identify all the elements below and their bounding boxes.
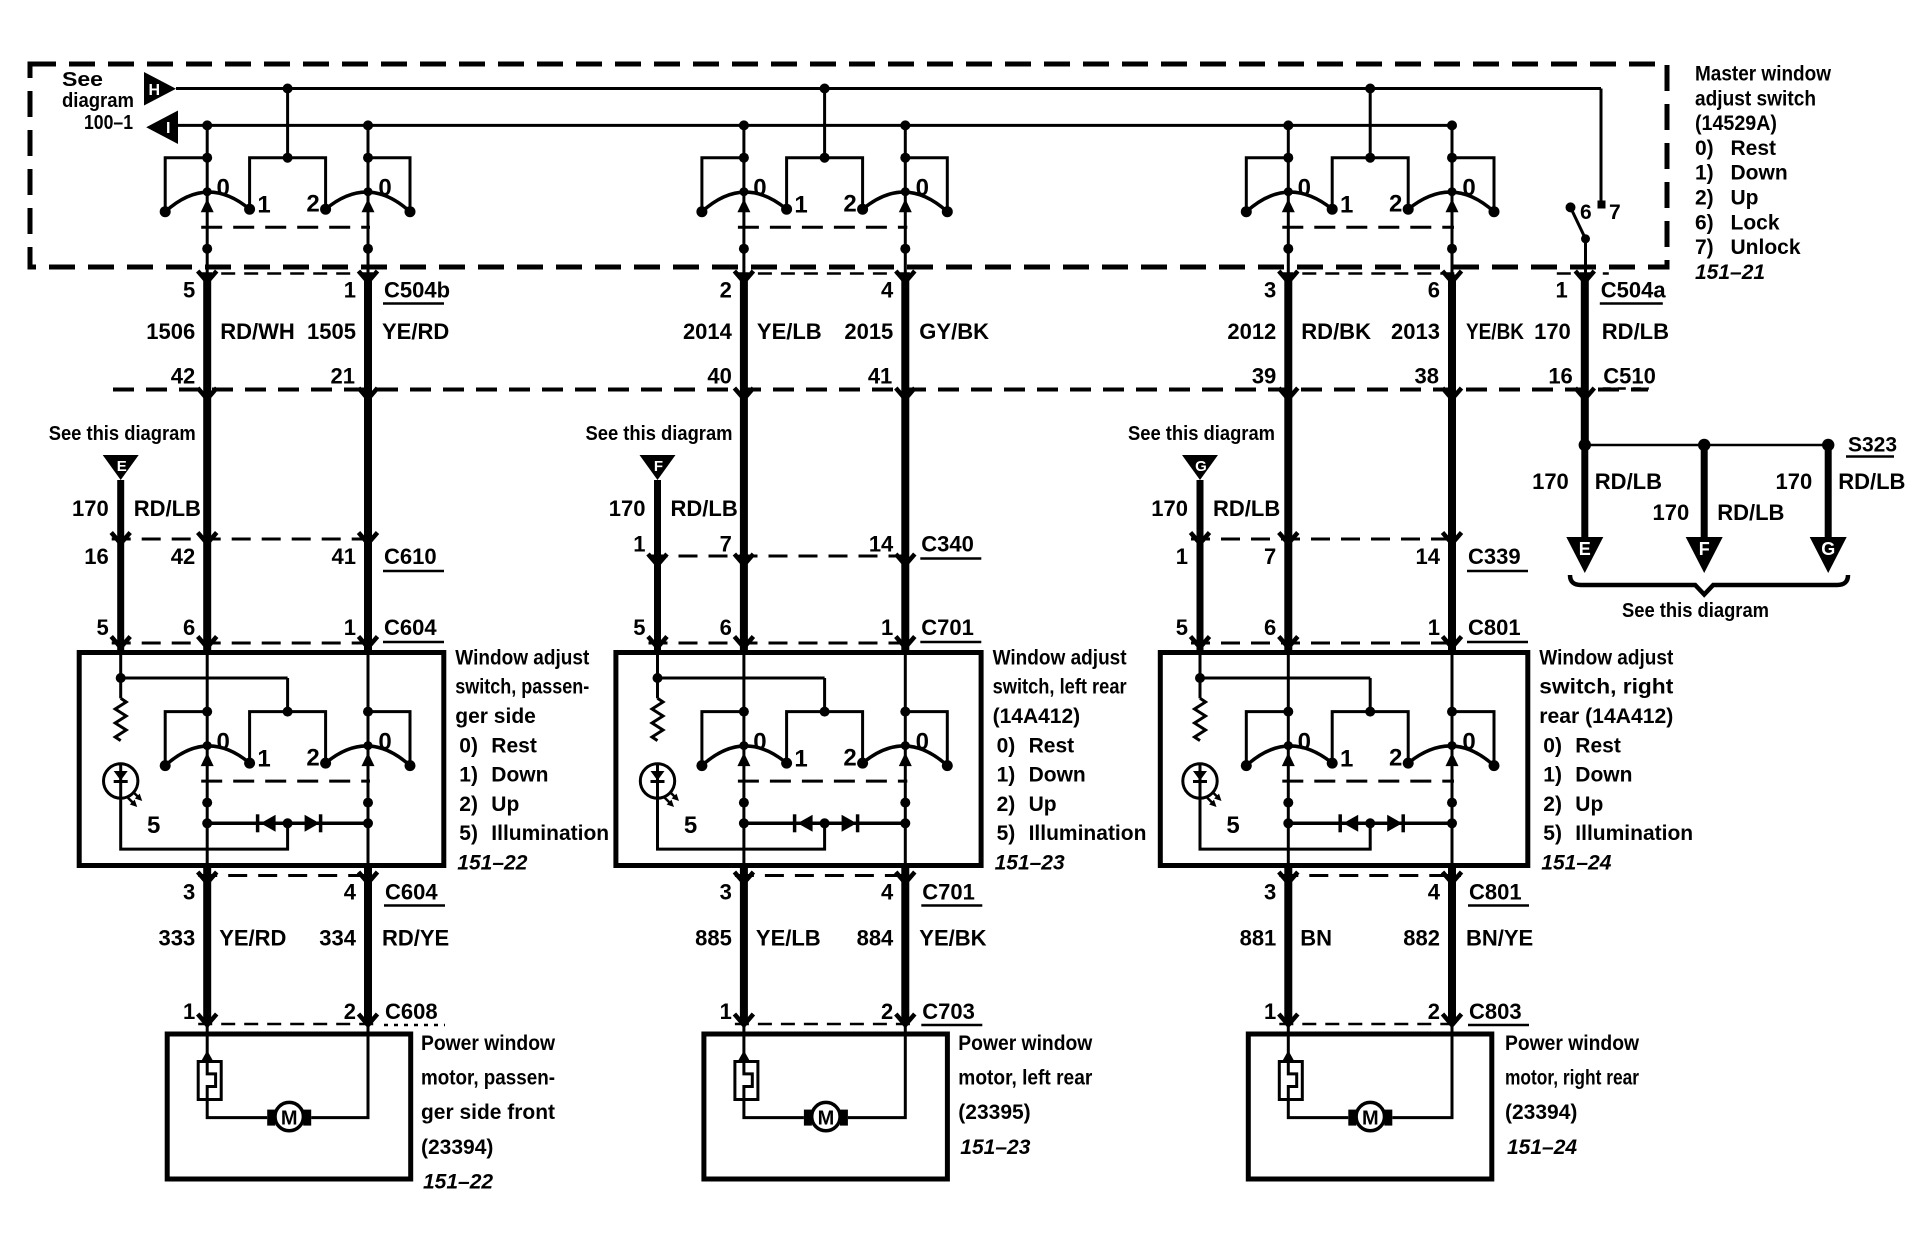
svg-text:6: 6 [1428,278,1440,303]
svg-text:Lock: Lock [1731,211,1780,234]
svg-text:5: 5 [96,615,108,640]
svg-text:Illumination: Illumination [491,822,609,845]
svg-text:16: 16 [84,544,108,569]
svg-text:2): 2) [1695,187,1714,210]
svg-text:E: E [1579,539,1591,559]
svg-text:0: 0 [916,729,929,756]
svg-text:Rest: Rest [1029,734,1075,757]
svg-text:adjust switch: adjust switch [1695,87,1816,110]
svg-text:M: M [281,1108,298,1130]
svg-text:C803: C803 [1469,999,1522,1024]
svg-text:Master window: Master window [1695,63,1832,86]
svg-text:Rest: Rest [1575,734,1621,757]
svg-text:Down: Down [1029,764,1086,787]
svg-text:RD/LB: RD/LB [671,496,738,521]
svg-text:2: 2 [843,745,856,772]
svg-text:151–23: 151–23 [960,1136,1030,1159]
svg-text:Rest: Rest [491,734,537,757]
svg-text:170: 170 [72,496,109,521]
svg-text:0: 0 [753,175,766,202]
svg-text:2: 2 [1389,191,1402,218]
svg-text:ger side front: ger side front [421,1101,555,1124]
svg-text:2): 2) [459,793,478,816]
svg-text:RD/WH: RD/WH [220,319,295,344]
svg-text:RD/LB: RD/LB [1595,469,1662,494]
svg-text:F: F [654,458,663,475]
svg-text:884: 884 [857,926,894,951]
svg-text:38: 38 [1415,364,1439,389]
svg-text:E: E [117,458,127,475]
svg-text:F: F [1699,539,1710,559]
svg-text:1: 1 [1340,192,1353,219]
svg-text:motor, right rear: motor, right rear [1505,1067,1639,1090]
svg-text:885: 885 [695,926,732,951]
svg-text:Up: Up [1029,793,1057,816]
svg-text:0: 0 [1298,175,1311,202]
svg-text:2: 2 [344,999,356,1024]
svg-text:Power window: Power window [958,1032,1093,1055]
svg-text:5: 5 [684,812,697,839]
svg-text:1: 1 [1556,278,1568,303]
svg-text:0: 0 [1462,729,1475,756]
svg-text:1): 1) [997,764,1016,787]
svg-text:7: 7 [720,532,732,557]
svg-text:334: 334 [319,926,356,951]
svg-text:333: 333 [158,926,195,951]
svg-text:4: 4 [881,278,894,303]
svg-text:YE/LB: YE/LB [757,319,822,344]
svg-text:See this diagram: See this diagram [1128,423,1275,445]
svg-text:Down: Down [1575,764,1632,787]
svg-text:6): 6) [1695,211,1714,234]
svg-text:(23395): (23395) [958,1101,1030,1124]
svg-text:151–22: 151–22 [423,1170,493,1193]
svg-text:Rest: Rest [1731,137,1777,160]
svg-text:C801: C801 [1469,880,1522,905]
svg-text:151–21: 151–21 [1695,261,1765,284]
svg-text:1: 1 [1176,544,1188,569]
svg-text:Up: Up [491,793,519,816]
svg-text:2: 2 [1389,745,1402,772]
svg-text:Down: Down [491,764,548,787]
svg-text:M: M [1362,1108,1379,1130]
svg-text:14: 14 [869,532,894,557]
svg-text:S323: S323 [1848,434,1897,457]
svg-text:Unlock: Unlock [1731,236,1801,259]
svg-text:(14A412): (14A412) [993,705,1081,728]
svg-text:C604: C604 [385,880,438,905]
svg-text:2: 2 [843,191,856,218]
svg-text:41: 41 [868,364,892,389]
svg-text:5: 5 [183,278,195,303]
svg-text:YE/RD: YE/RD [219,926,286,951]
svg-text:YE/BK: YE/BK [919,926,986,951]
svg-text:5: 5 [1226,812,1239,839]
svg-text:1: 1 [794,192,807,219]
svg-text:1506: 1506 [146,319,195,344]
svg-text:Up: Up [1575,793,1603,816]
svg-text:1): 1) [1695,162,1714,185]
svg-text:2): 2) [997,793,1016,816]
svg-text:Illumination: Illumination [1575,822,1693,845]
svg-text:2014: 2014 [683,319,733,344]
svg-text:M: M [818,1108,835,1130]
svg-text:C510: C510 [1603,364,1656,389]
svg-text:Power window: Power window [1505,1032,1640,1055]
svg-text:YE/RD: YE/RD [382,319,449,344]
svg-text:Up: Up [1731,187,1759,210]
svg-text:14: 14 [1416,544,1441,569]
svg-text:3: 3 [720,880,732,905]
svg-text:151–24: 151–24 [1541,852,1611,875]
svg-text:1): 1) [1543,764,1562,787]
svg-text:7): 7) [1695,236,1714,259]
svg-text:7: 7 [1264,544,1276,569]
svg-text:5: 5 [1176,615,1188,640]
svg-text:0: 0 [753,729,766,756]
svg-text:2013: 2013 [1391,319,1440,344]
svg-text:1: 1 [1340,746,1353,773]
svg-text:motor, left rear: motor, left rear [958,1067,1092,1090]
svg-text:C701: C701 [922,880,975,905]
svg-text:1): 1) [459,764,478,787]
svg-text:151–24: 151–24 [1507,1136,1577,1159]
svg-text:0: 0 [1462,175,1475,202]
svg-text:See this diagram: See this diagram [49,423,196,445]
svg-text:170: 170 [1775,469,1812,494]
svg-text:1: 1 [794,746,807,773]
svg-text:5): 5) [997,822,1016,845]
svg-text:See: See [62,69,103,91]
svg-text:H: H [149,82,161,99]
svg-text:YE/LB: YE/LB [756,926,821,951]
svg-text:RD/YE: RD/YE [382,926,449,951]
svg-text:diagram: diagram [62,90,134,112]
svg-text:170: 170 [1652,500,1689,525]
svg-text:0: 0 [378,729,391,756]
svg-text:4: 4 [881,880,894,905]
svg-text:RD/LB: RD/LB [1602,319,1669,344]
svg-text:882: 882 [1403,926,1440,951]
svg-text:BN: BN [1300,926,1332,951]
svg-text:C604: C604 [384,615,437,640]
svg-text:170: 170 [1532,469,1569,494]
svg-text:See this diagram: See this diagram [586,423,733,445]
svg-text:Power window: Power window [421,1032,556,1055]
svg-text:1: 1 [720,999,732,1024]
svg-text:rear (14A412): rear (14A412) [1539,705,1673,728]
svg-text:4: 4 [1428,880,1441,905]
svg-text:1: 1 [633,532,645,557]
svg-text:RD/LB: RD/LB [134,496,201,521]
svg-text:C801: C801 [1468,615,1521,640]
svg-text:YE/BK: YE/BK [1466,319,1524,344]
svg-text:RD/LB: RD/LB [1717,500,1784,525]
svg-text:C504a: C504a [1601,278,1667,303]
svg-text:151–22: 151–22 [457,852,527,875]
svg-text:5): 5) [459,822,478,845]
svg-text:switch, left rear: switch, left rear [993,676,1127,699]
svg-text:5): 5) [1543,822,1562,845]
svg-text:3: 3 [1264,278,1276,303]
svg-text:1: 1 [1264,999,1276,1024]
svg-text:6: 6 [1580,201,1592,224]
svg-text:0: 0 [217,729,230,756]
svg-text:1: 1 [257,192,270,219]
svg-text:BN/YE: BN/YE [1466,926,1533,951]
svg-text:40: 40 [707,364,731,389]
svg-text:170: 170 [1151,496,1188,521]
svg-text:151–23: 151–23 [995,852,1065,875]
svg-text:0: 0 [217,175,230,202]
svg-text:ger side: ger side [455,705,536,728]
svg-text:41: 41 [332,544,356,569]
svg-text:(23394): (23394) [421,1136,493,1159]
svg-text:2012: 2012 [1227,319,1276,344]
svg-text:1: 1 [257,746,270,773]
svg-text:21: 21 [331,364,355,389]
svg-text:switch, right: switch, right [1539,676,1673,699]
svg-text:Window adjust: Window adjust [1539,646,1673,669]
svg-text:Window adjust: Window adjust [455,646,589,669]
svg-text:(14529A): (14529A) [1695,112,1777,135]
svg-text:42: 42 [171,364,195,389]
svg-text:42: 42 [171,544,195,569]
svg-text:0: 0 [916,175,929,202]
svg-text:4: 4 [344,880,357,905]
svg-text:2): 2) [1543,793,1562,816]
svg-text:0: 0 [1298,729,1311,756]
svg-text:7: 7 [1609,201,1621,224]
svg-text:RD/BK: RD/BK [1301,319,1371,344]
svg-text:C340: C340 [921,532,974,557]
svg-text:2015: 2015 [844,319,893,344]
svg-text:0): 0) [1543,734,1562,757]
svg-text:2: 2 [720,278,732,303]
svg-text:100–1: 100–1 [84,112,133,134]
svg-text:1: 1 [344,278,356,303]
svg-text:See this diagram: See this diagram [1622,600,1769,622]
svg-text:C339: C339 [1468,544,1521,569]
svg-text:3: 3 [1264,880,1276,905]
svg-text:1: 1 [881,615,893,640]
svg-text:881: 881 [1240,926,1277,951]
svg-text:16: 16 [1548,364,1572,389]
svg-text:170: 170 [1534,319,1571,344]
svg-text:Window adjust: Window adjust [993,646,1127,669]
svg-text:C701: C701 [921,615,974,640]
svg-text:Illumination: Illumination [1029,822,1147,845]
svg-text:2: 2 [1428,999,1440,1024]
svg-text:RD/LB: RD/LB [1213,496,1280,521]
svg-text:2: 2 [306,745,319,772]
svg-text:1505: 1505 [307,319,356,344]
svg-text:0: 0 [378,175,391,202]
svg-text:G: G [1195,458,1207,475]
svg-text:1: 1 [1428,615,1440,640]
svg-text:39: 39 [1252,364,1276,389]
svg-text:170: 170 [609,496,646,521]
svg-text:0): 0) [459,734,478,757]
svg-text:C504b: C504b [384,278,450,303]
svg-text:3: 3 [183,880,195,905]
svg-text:5: 5 [147,812,160,839]
svg-text:motor, passen-: motor, passen- [421,1067,555,1090]
svg-text:5: 5 [633,615,645,640]
svg-text:6: 6 [1264,615,1276,640]
svg-text:6: 6 [720,615,732,640]
svg-text:2: 2 [881,999,893,1024]
svg-text:Down: Down [1731,162,1788,185]
svg-text:(23394): (23394) [1505,1101,1577,1124]
svg-text:switch, passen-: switch, passen- [455,676,589,699]
svg-text:C608: C608 [385,999,438,1024]
svg-text:GY/BK: GY/BK [919,319,989,344]
svg-text:C610: C610 [384,544,437,569]
svg-text:1: 1 [344,615,356,640]
svg-text:G: G [1821,539,1835,559]
svg-text:0): 0) [997,734,1016,757]
svg-text:1: 1 [183,999,195,1024]
svg-text:I: I [166,120,170,137]
svg-text:0): 0) [1695,137,1714,160]
svg-text:6: 6 [183,615,195,640]
svg-text:RD/LB: RD/LB [1838,469,1905,494]
svg-text:2: 2 [306,191,319,218]
svg-text:C703: C703 [922,999,975,1024]
